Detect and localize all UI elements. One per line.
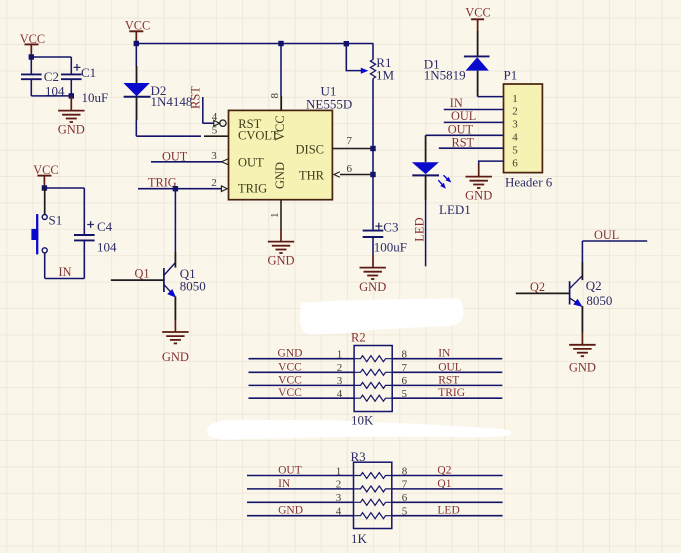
svg-text:LED1: LED1 — [439, 202, 471, 217]
pin 2 TRIG glyph — [221, 186, 227, 192]
svg-text:GND: GND — [569, 360, 596, 374]
svg-text:IN: IN — [278, 478, 291, 490]
svg-text:GND: GND — [278, 348, 303, 360]
resistor element R3-4 — [354, 513, 392, 519]
wire VCC rail to C2/C1 tops — [31, 56, 71, 58]
svg-text:7: 7 — [402, 479, 408, 491]
svg-text:1: 1 — [337, 349, 343, 361]
wire R2 pin 2 (left) — [249, 371, 355, 373]
svg-text:RST: RST — [189, 86, 203, 109]
resistor element R2-1 — [354, 356, 392, 362]
wire VCC to S1/C4 — [44, 187, 84, 189]
svg-text:2: 2 — [337, 362, 343, 374]
wire TRIG net to pin 2 — [138, 188, 221, 190]
wire Q2 emitter down — [581, 306, 583, 333]
svg-text:TRIG: TRIG — [148, 176, 177, 190]
wire Q2 collector — [581, 241, 583, 262]
wire pin 8 VCC to rail — [280, 44, 282, 97]
wire R3 pin 4 (left) — [247, 515, 354, 517]
svg-text:100uF: 100uF — [374, 239, 407, 254]
svg-text:VCC: VCC — [273, 115, 287, 141]
wire S1 top lead — [44, 188, 46, 214]
svg-text:VCC: VCC — [278, 387, 302, 399]
ground GND (555 pin1) — [280, 229, 282, 242]
svg-text:VCC: VCC — [465, 6, 490, 20]
white patch (erasure below R2) — [207, 420, 512, 440]
wire C1 top lead — [70, 57, 72, 74]
svg-text:R2: R2 — [351, 331, 366, 345]
svg-text:C4: C4 — [97, 219, 113, 234]
svg-text:5: 5 — [512, 144, 518, 156]
svg-text:IN: IN — [450, 96, 463, 110]
junction pin8/rail — [278, 41, 283, 46]
power symbol VCC bar (555 rail) — [129, 30, 143, 32]
wire Q1 base — [111, 279, 164, 281]
svg-text:10K: 10K — [351, 413, 374, 428]
svg-text:4: 4 — [512, 132, 518, 144]
junction VCC/S1 — [42, 185, 47, 190]
wire R3 pin 3 (left) — [247, 501, 354, 503]
svg-text:OUT: OUT — [278, 465, 302, 477]
svg-text:GND: GND — [273, 162, 287, 189]
svg-text:VCC: VCC — [278, 361, 302, 373]
svg-text:GND: GND — [58, 122, 85, 136]
svg-text:Q2: Q2 — [437, 465, 451, 477]
wire R1 top lead — [372, 44, 374, 60]
svg-text:LED: LED — [412, 217, 426, 241]
svg-text:GND: GND — [465, 189, 492, 203]
wire C3 bottom lead — [372, 237, 374, 255]
svg-text:C1: C1 — [81, 65, 96, 80]
pin 7 DISC stub — [332, 148, 373, 150]
svg-text:IN: IN — [438, 348, 451, 360]
svg-text:8050: 8050 — [586, 293, 612, 308]
ground GND (Q1) — [174, 320, 176, 332]
wire LED1 anode lead — [425, 135, 427, 162]
svg-text:S1: S1 — [49, 212, 63, 227]
junction rail/R1 wiper branch — [344, 41, 349, 46]
svg-text:TRIG: TRIG — [238, 182, 267, 196]
svg-text:6: 6 — [402, 375, 408, 387]
LED LED1 — [412, 162, 439, 174]
wire OUT to P1 pin4 and LED1 — [426, 134, 504, 136]
junction at C1 bottom / ground — [69, 93, 74, 98]
svg-text:LED: LED — [437, 505, 459, 517]
svg-text:OUL: OUL — [594, 228, 619, 242]
connector P1 Header 6 body — [504, 84, 543, 173]
svg-text:NE555D: NE555D — [306, 97, 352, 112]
svg-text:3: 3 — [336, 492, 342, 504]
resistor element R2-3 — [354, 382, 392, 388]
op-amp U1 NE555D body — [229, 110, 333, 199]
svg-text:7: 7 — [402, 362, 408, 374]
wire D2 anode lead — [135, 44, 137, 67]
svg-text:C2: C2 — [44, 69, 59, 84]
svg-text:P1: P1 — [504, 68, 518, 83]
svg-text:104: 104 — [97, 240, 117, 255]
wire OUL to P1 pin3 — [444, 121, 504, 123]
resistor element R3-1 — [354, 473, 392, 479]
svg-text:Q2: Q2 — [586, 278, 602, 293]
wire P1 pin6 to ground — [479, 161, 504, 165]
svg-text:RST: RST — [438, 374, 459, 386]
svg-text:Q1: Q1 — [437, 478, 451, 490]
svg-text:2: 2 — [336, 479, 342, 491]
switch S1 (push button) — [42, 215, 47, 220]
svg-text:GND: GND — [162, 350, 189, 364]
svg-text:5: 5 — [402, 506, 408, 518]
junction VCC/D2 — [134, 41, 139, 46]
svg-text:7: 7 — [347, 135, 353, 147]
wire R1 wiper branch — [346, 44, 361, 71]
wire R2 pin 7 (right) — [392, 371, 503, 373]
wire R2 pin 8 (right) — [392, 358, 503, 360]
pin 6 THR stub — [340, 174, 373, 176]
svg-text:1: 1 — [512, 93, 518, 105]
svg-text:6: 6 — [512, 157, 518, 169]
resistor element R2-2 — [354, 369, 392, 375]
svg-text:3: 3 — [512, 119, 518, 131]
ground GND (Q2) — [581, 333, 583, 345]
svg-text:C3: C3 — [383, 220, 398, 235]
wire C1 bottom lead — [70, 80, 72, 96]
pin 1 GND lead — [280, 200, 282, 229]
resistor network R3 body — [354, 462, 392, 528]
wire C2 bottom to C1 bottom — [31, 95, 71, 97]
white patch (erasure above R2) — [300, 299, 464, 335]
pin 6 THR glyph — [334, 172, 340, 178]
pin 5 CVOLT stub — [204, 135, 229, 137]
wire D2 cathode to pin5 — [136, 97, 138, 120]
wire D1 cathode lead — [477, 31, 479, 56]
svg-text:8: 8 — [269, 93, 281, 99]
wire R3 pin 5 (right) — [392, 515, 503, 517]
wire OUL net at Q2 — [582, 240, 647, 242]
svg-text:5: 5 — [402, 388, 408, 400]
junction at VCC/C2 top — [29, 54, 34, 59]
svg-text:IN: IN — [59, 265, 72, 279]
wire R3 pin 7 (right) — [392, 488, 503, 490]
svg-text:OUL: OUL — [438, 361, 462, 373]
svg-text:4: 4 — [212, 111, 218, 123]
svg-text:THR: THR — [299, 169, 325, 183]
svg-text:1N5819: 1N5819 — [424, 68, 466, 83]
wire D1 anode to P1 pin1 — [477, 71, 479, 97]
svg-text:1K: 1K — [351, 531, 368, 546]
wire OUT net to pin 3 — [151, 161, 223, 163]
pin 3 OUT glyph — [222, 159, 229, 165]
svg-text:6: 6 — [402, 492, 408, 504]
svg-text:4: 4 — [336, 506, 342, 518]
svg-text:8: 8 — [402, 349, 408, 361]
svg-text:3: 3 — [211, 150, 217, 162]
wire C2 bottom lead — [30, 80, 32, 96]
ground GND (C1/C2) — [70, 96, 72, 111]
power symbol VCC bar (D1) — [471, 18, 484, 20]
svg-text:1: 1 — [269, 213, 281, 219]
svg-text:8050: 8050 — [180, 278, 206, 293]
wire R3 pin 2 (left) — [247, 488, 354, 490]
wire R1 bottom / DISC / THR column — [372, 79, 374, 231]
wire R2 pin 3 (left) — [249, 384, 355, 386]
pin 4 RST (bubble, active low) — [214, 120, 220, 126]
wire R2 pin 1 (left) — [249, 358, 355, 360]
wire Q2 base — [516, 292, 570, 294]
svg-text:2: 2 — [211, 177, 217, 189]
svg-text:OUT: OUT — [448, 122, 474, 136]
wire IN net bottom — [45, 278, 84, 280]
ground GND (C3) — [372, 255, 374, 268]
wire RST net to pin 4 — [202, 97, 204, 124]
wire R3 pin 8 (right) — [392, 475, 503, 477]
capacitor C1 (polarized) — [61, 73, 82, 75]
svg-text:5: 5 — [212, 125, 218, 137]
wire top supply rail — [136, 43, 373, 45]
arrow into R1 (wiper) — [361, 68, 369, 74]
capacitor C3 (polarized) — [375, 223, 382, 230]
svg-text:1N4148: 1N4148 — [151, 94, 193, 109]
wire LED1 cathode down (net LED) — [425, 175, 427, 200]
power symbol VCC bar (S1/C4) — [37, 175, 51, 177]
wire RST to P1 pin5 — [439, 147, 504, 149]
wire C2 top lead — [30, 57, 32, 74]
capacitor C2 — [21, 73, 42, 75]
resistor element R2-4 — [354, 395, 392, 401]
wire C4 bottom lead — [83, 240, 85, 278]
junction pin6/column — [370, 172, 375, 177]
resistor R1 — [370, 60, 375, 79]
svg-text:VCC: VCC — [125, 18, 150, 32]
resistor element R3-3 — [354, 499, 392, 505]
diode D1 1N5819 — [464, 55, 490, 57]
junction pin7/column — [370, 146, 375, 151]
transistor Q2 8050 (NPN) — [569, 281, 571, 304]
capacitor C4 (polarized) — [87, 221, 94, 228]
svg-text:Q1: Q1 — [135, 267, 150, 281]
svg-text:6: 6 — [347, 163, 353, 175]
wire R3 pin 6 (right) — [392, 501, 503, 503]
wire R2 pin 6 (right) — [392, 384, 503, 386]
svg-text:4: 4 — [337, 388, 343, 400]
svg-text:OUL: OUL — [451, 109, 476, 123]
wire R2 pin 5 (right) — [392, 397, 503, 399]
wire R3 pin 1 (left) — [247, 475, 354, 477]
svg-text:VCC: VCC — [278, 374, 302, 386]
svg-text:Header 6: Header 6 — [505, 175, 553, 190]
wire R2 pin 4 (left) — [249, 397, 355, 399]
diode D2 1N4148 — [123, 83, 149, 96]
svg-text:Q2: Q2 — [530, 280, 545, 294]
ground GND (P1 pin6) — [478, 164, 480, 177]
svg-text:3: 3 — [337, 375, 343, 387]
svg-text:GND: GND — [359, 280, 386, 294]
svg-text:TRIG: TRIG — [438, 387, 465, 399]
wire Q1 collector to TRIG — [174, 189, 176, 252]
power symbol VCC bar (C1/C2 rail) — [25, 43, 39, 45]
svg-text:2: 2 — [512, 106, 518, 118]
svg-text:8: 8 — [402, 465, 408, 477]
svg-text:10uF: 10uF — [82, 90, 109, 105]
svg-text:DISC: DISC — [296, 143, 324, 157]
svg-text:OUT: OUT — [238, 156, 264, 170]
wire C4 top lead — [83, 188, 85, 235]
resistor network R2 body — [354, 346, 392, 412]
svg-text:GND: GND — [267, 254, 294, 268]
svg-text:1: 1 — [336, 465, 342, 477]
wire S1 bottom lead — [44, 253, 46, 279]
resistor element R3-2 — [354, 486, 392, 492]
svg-text:1M: 1M — [376, 68, 395, 83]
wire IN to P1 pin2 — [444, 109, 504, 111]
svg-text:GND: GND — [278, 505, 303, 517]
transistor Q1 8050 (NPN) — [163, 268, 165, 292]
junction TRIG/Q1 collector — [173, 186, 178, 191]
wire Q1 emitter down — [174, 297, 176, 321]
